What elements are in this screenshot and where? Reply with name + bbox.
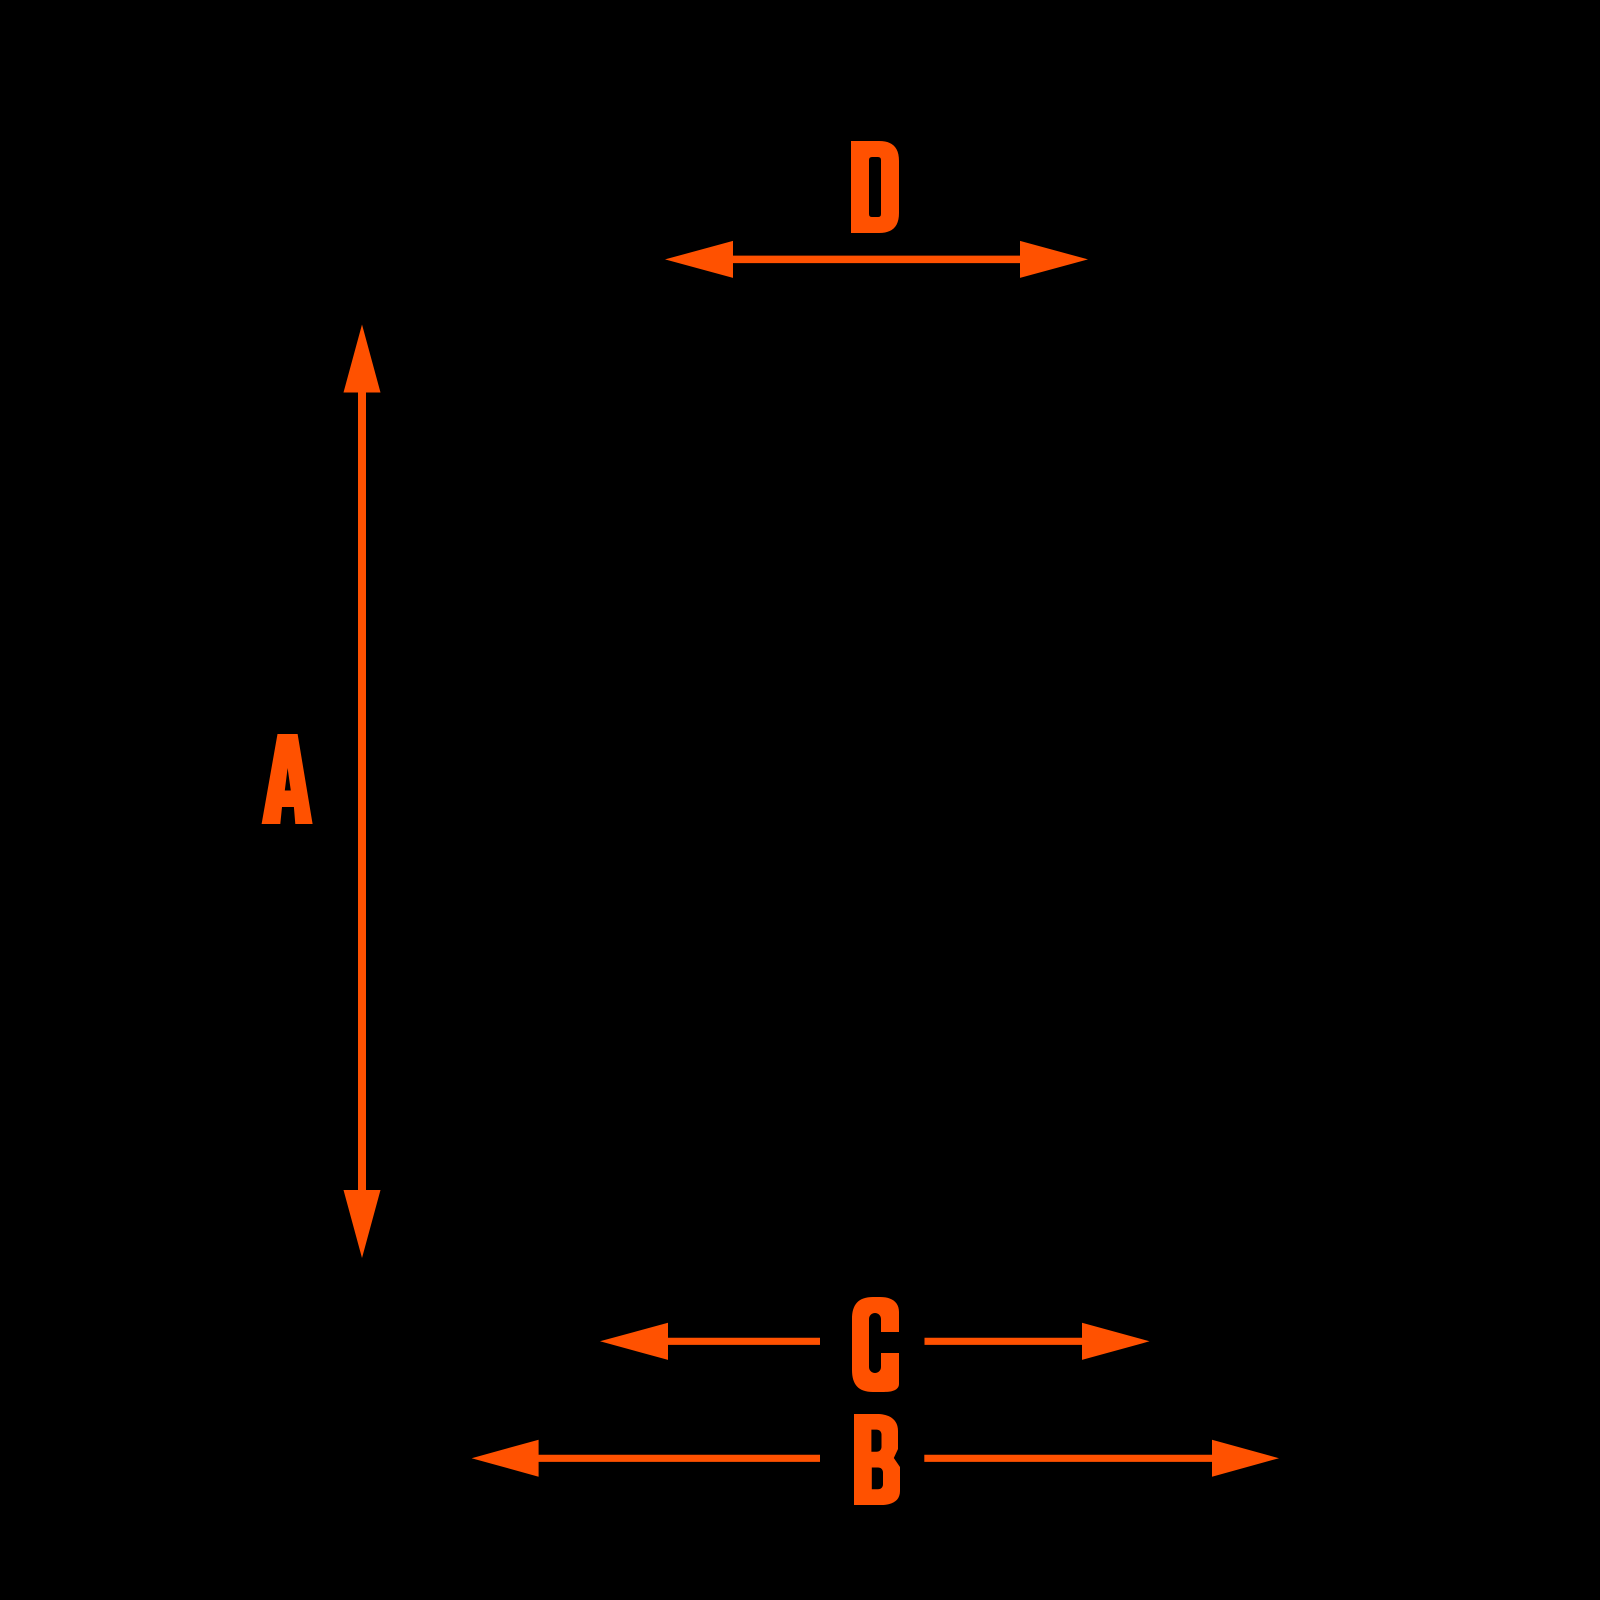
dimension arrow D (horizontal double-headed) [665, 241, 1088, 278]
label D [851, 141, 899, 233]
label B [854, 1414, 900, 1505]
dimension arrow C left segment [600, 1323, 820, 1360]
dimension arrow C right segment [925, 1323, 1150, 1360]
dimension arrow B left segment [472, 1440, 820, 1477]
label A [262, 734, 313, 824]
dimension arrow A (vertical double-headed) [344, 325, 381, 1259]
label C [852, 1297, 899, 1392]
dimension arrow B right segment [924, 1440, 1279, 1477]
